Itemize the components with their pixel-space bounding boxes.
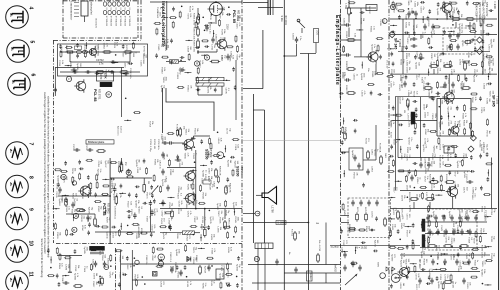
svg-text:30n: 30n [367,68,369,72]
capacitor T2848 [429,215,431,218]
svg-text:R3805 100k: R3805 100k [193,40,195,53]
resistor Sp1737 [227,233,229,238]
svg-text:2,2n: 2,2n [61,263,63,268]
junction [415,18,417,20]
resistor L2192 [168,133,173,135]
resistor C1786 [54,224,56,229]
capacitor C3728 [64,162,67,164]
svg-text:Bv: Bv [288,252,290,255]
svg-text:C2726: C2726 [405,155,407,162]
resistor Sp2152 [160,187,162,192]
wire segment [449,186,451,193]
resistor R3848 [90,265,92,270]
svg-text:R1080: R1080 [161,67,163,74]
resistor Sp1336 [66,230,68,235]
svg-text:C2822: C2822 [192,153,194,160]
wires join bottom right [452,197,454,209]
svg-text:C2455: C2455 [341,247,343,254]
junction [397,40,399,42]
faint fold line [243,140,340,142]
resistor R2408 [348,68,354,71]
svg-text:R1909: R1909 [169,169,171,176]
junction [430,255,432,257]
svg-text:Sp3420: Sp3420 [399,260,401,268]
wire segment [341,251,348,253]
svg-text:C2695: C2695 [157,44,159,51]
svg-text:Sp3953: Sp3953 [456,161,458,169]
svg-text:C1981: C1981 [86,216,88,223]
svg-text:R3014: R3014 [70,209,72,216]
svg-text:C2295: C2295 [55,191,57,198]
horizontal rail y120 right [392,120,437,122]
transistor T3502 [186,171,196,181]
svg-text:R3044: R3044 [370,26,372,33]
resistor T2213 [227,264,229,269]
capacitor T3384 [480,23,483,25]
caps lower left col [343,253,346,255]
testpoint 5 [126,170,131,175]
transformer Tr3801 hatched bars [196,77,224,80]
diode row lower [103,10,106,14]
svg-text:C1245: C1245 [440,225,442,232]
svg-text:T2634: T2634 [101,255,103,262]
svg-text:1: 1 [67,78,71,80]
svg-text:L3577: L3577 [415,74,417,81]
svg-text:2: 2 [104,266,108,268]
resistor T2300 [396,3,401,5]
wire segment [390,24,397,26]
svg-text:Sp2882: Sp2882 [202,170,204,178]
capacitor T2206 [135,194,138,196]
dark coil bottom right [411,112,415,124]
capacitor L3822 [95,72,97,75]
svg-text:T2955: T2955 [58,60,60,67]
resistor C1408 [377,72,382,74]
capacitor T2221 [340,229,343,231]
capacitor C3722 [149,202,152,204]
svg-text:1M: 1M [113,183,115,186]
svg-text:Sp1204: Sp1204 [373,240,375,248]
svg-text:1M: 1M [488,131,490,134]
svg-text:R2999: R2999 [341,72,343,79]
svg-text:L1160: L1160 [124,62,126,68]
svg-text:L2905: L2905 [439,131,441,138]
svg-text:R1112: R1112 [404,14,406,21]
capacitor C1219 [430,96,432,99]
svg-text:L1878: L1878 [400,195,402,202]
wire segment [213,30,215,37]
resistor Sp3159 [103,193,108,195]
resistor R1087 [156,29,158,34]
capacitor T2054 [456,106,459,108]
svg-text:nischen Fortschritt der Schalt: nischen Fortschritt der Schaltung [40,238,44,278]
svg-text:L3302: L3302 [391,224,393,231]
svg-text:Sp2248: Sp2248 [161,179,163,187]
resistor R2175 [225,201,227,206]
svg-text:sämtliche Werte die dem techni: sämtliche Werte die dem technischen Fort… [47,96,51,258]
resistor Sp3041 [203,40,208,42]
svg-text:1M: 1M [454,221,456,224]
capacitor T2824 [390,155,392,158]
svg-text:Sp1352: Sp1352 [443,230,445,238]
svg-text:R2096: R2096 [399,75,401,82]
svg-text:L3645: L3645 [400,223,402,230]
svg-text:C2948: C2948 [398,216,400,223]
junction [193,234,195,236]
svg-text:C1119: C1119 [111,183,113,190]
transistor T1201 [442,3,452,13]
svg-text:L3104: L3104 [360,91,362,98]
bottom row in subbox [350,229,355,231]
capacitor C3373 [88,223,91,225]
capacitor T1609 [486,33,488,36]
svg-text:5M: 5M [298,231,300,234]
wire segment [387,48,394,50]
wire segment [111,62,118,64]
wire segment [50,256,52,263]
wire right drop [120,68,122,118]
svg-text:Sp3131: Sp3131 [106,231,108,239]
svg-text:C3334: C3334 [471,193,473,200]
capacitor Sp3291 [205,24,207,27]
svg-text:Sp3324: Sp3324 [137,206,139,214]
resistor L2976 [473,248,478,250]
svg-text:L2816: L2816 [159,281,161,288]
svg-text:C3721: C3721 [56,183,58,190]
wire segment [201,54,208,56]
capacitor T1993 [354,129,357,131]
resistor T3600 [217,177,219,182]
resistor R3704 [104,51,110,53]
svg-text:Sp3052: Sp3052 [74,273,76,281]
resistors right r1 [453,18,459,21]
svg-text:C2051: C2051 [97,161,99,168]
resistor R1494 [415,171,417,176]
dashed subbox empfangs lower [348,198,391,238]
capacitor Sp1361 [143,202,145,205]
resistor Sp2029 [55,169,60,171]
resistor R1383 [471,108,476,110]
cap col3 [346,78,348,81]
svg-text:R3499: R3499 [218,12,220,19]
resistor L1263 [451,2,456,4]
capacitor T2269 [408,170,411,172]
capacitor Sp2021 [391,52,394,54]
svg-text:G: G [394,277,398,280]
svg-text:T1594: T1594 [471,97,473,104]
resistor R2176 [185,246,187,251]
wire main rail y67.5 [55,67,124,69]
svg-text:C2977: C2977 [458,14,460,21]
resistor C1289 [434,26,439,28]
main vertical wire x284 [283,0,285,290]
svg-text:T2541: T2541 [225,185,227,192]
resistor R2260 [473,24,475,29]
svg-text:R3252: R3252 [406,147,408,154]
junction [351,12,353,14]
svg-text:C1574: C1574 [98,249,100,256]
svg-text:L3659: L3659 [186,46,188,53]
junction [134,257,136,259]
resistor Sp1133 [60,51,62,56]
cap col1 [346,23,348,26]
svg-text:1M: 1M [435,145,437,148]
svg-text:R1838: R1838 [202,193,204,200]
capacitor L1972 [196,46,198,49]
capacitor L1580 [172,7,175,9]
Empfangs board inner dashed edge [388,0,390,290]
tube socket 8 [6,175,29,198]
junction [452,24,454,26]
svg-text:L3337: L3337 [466,209,468,216]
wire segment [65,65,72,67]
wire segment [200,164,207,166]
circle small bottom [380,273,386,279]
caps bottom right y258-270 [431,260,434,262]
svg-text:Ausführungen vergleichen Sie m: Ausführungen vergleichen Sie mit dem jew… [43,92,47,254]
svg-text:C3066: C3066 [185,202,187,209]
resistor R2427 [188,55,190,60]
box Sp2402 [366,5,377,11]
svg-text:Sp1235: Sp1235 [160,85,162,93]
svg-text:L3301: L3301 [406,67,408,74]
svg-text:T1427: T1427 [87,190,89,197]
resistor Sp3099 [59,254,61,259]
svg-text:4: 4 [28,7,34,10]
svg-text:C3332: C3332 [151,224,153,231]
svg-text:Sp2405: Sp2405 [96,169,98,177]
svg-text:Sp3854: Sp3854 [480,269,482,277]
svg-text:C3802 1,5n: C3802 1,5n [209,22,211,34]
resistor R2406 [348,39,354,42]
resistor T3361 [473,211,478,213]
capacitor L3599 [448,147,451,149]
long wire x253 [252,94,254,243]
capacitor C3721 [58,188,61,190]
resistor T3595 [111,162,116,164]
resistor C2524 [208,257,213,259]
svg-text:R3801 170k: R3801 170k [193,13,195,26]
svg-text:L2272: L2272 [443,274,445,281]
resistor L1957 [431,130,436,132]
svg-text:Sp2145: Sp2145 [162,232,164,240]
svg-text:Sp2412: Sp2412 [374,149,376,157]
caps row y160-175 right [419,163,422,165]
resistor L1128 [472,93,477,95]
resistor grid y60-74 [431,65,437,68]
wire segment [62,275,69,277]
wire segment [161,17,168,19]
svg-text:C1094: C1094 [135,233,137,240]
capacitor Sp3461 [488,83,490,86]
resistor R3546 [225,187,228,193]
resistor L3061 [440,176,442,181]
svg-text:1M: 1M [448,45,450,48]
trimmer arrow [151,186,158,194]
wire empf col h [345,7,376,9]
svg-text:Sp1962: Sp1962 [179,67,181,75]
capacitor R3896 [370,55,373,57]
svg-text:b224: b224 [124,22,126,27]
capacitor Sp3609 [445,76,448,78]
svg-text:Sp2392: Sp2392 [226,160,228,168]
hwire r3 [398,51,490,53]
wire bottom connects [284,272,340,274]
resistor R2039 [441,268,446,270]
wire segment [224,145,226,152]
resistor R3319 [170,17,175,19]
svg-text:R3703: R3703 [83,45,85,52]
svg-text:L2994: L2994 [216,227,218,234]
resistor R3725 [94,219,97,225]
svg-text:Sp1032: Sp1032 [235,264,237,272]
wire hr bottom1 [390,208,497,210]
svg-text:T3963: T3963 [221,55,223,62]
wire segment [400,146,402,153]
capacitor Sp2708 [436,231,438,234]
resistor R3542 [179,129,182,135]
capacitor Sp1384 [234,86,237,88]
svg-text:11: 11 [28,272,34,278]
svg-text:C317: C317 [70,15,72,21]
junction [127,225,129,227]
svg-text:Empfangs-Leiterplatte: Empfangs-Leiterplatte [334,15,340,86]
wire segment [355,247,357,254]
svg-text:T1158: T1158 [71,168,73,175]
capacitor Sp3452 [360,11,362,14]
wire segment [53,208,60,210]
resistor T2249 [135,280,137,285]
svg-text:R1422: R1422 [127,201,129,208]
svg-text:Sp1228: Sp1228 [219,273,221,281]
wire row2 [70,61,130,63]
horizontal rail y283 mid-bottom [252,282,340,284]
svg-text:R1333: R1333 [201,217,203,224]
junction [414,187,416,189]
svg-text:R1205: R1205 [219,217,221,224]
resistor Sp1402 [432,194,434,199]
svg-text:L3394: L3394 [424,129,426,136]
svg-text:C2452: C2452 [371,166,373,173]
svg-text:C1758: C1758 [445,237,447,244]
Impuls board dashed outline top box [63,0,138,2]
resistor L2584 [158,248,163,250]
Impuls board dashed outline main [53,40,55,243]
svg-text:R1779: R1779 [405,230,407,237]
capacitor C3527 [169,226,172,228]
svg-text:T3695: T3695 [207,77,209,84]
svg-text:R2047: R2047 [398,85,400,92]
svg-text:ABL: ABL [9,215,12,220]
capacitor C3718 [122,45,125,47]
svg-text:1M: 1M [402,283,404,286]
resistor T2507 [233,139,238,141]
testpoint b [194,61,199,66]
transistor bottom empfangs [400,268,409,277]
capacitor C3802 [205,26,208,28]
capacitor T3135 [429,46,431,49]
resistor R1572 [352,262,357,264]
testpoint 3 [158,254,164,260]
mid vertical bus [195,150,197,209]
svg-text:R3533: R3533 [56,232,58,239]
svg-text:C1877: C1877 [219,37,221,44]
svg-text:Sp3522: Sp3522 [199,60,201,68]
svg-text:C2467: C2467 [445,45,447,52]
svg-text:R3565: R3565 [445,14,447,21]
junction [144,283,146,285]
svg-text:Sp2451: Sp2451 [351,150,353,158]
svg-text:Sp2042: Sp2042 [432,211,434,219]
svg-text:3: 3 [159,256,163,258]
resistor R3708 [66,46,71,48]
svg-text:C1214: C1214 [459,83,461,90]
capacitor T2693 [426,83,428,86]
wire net right of tube [110,177,152,179]
svg-text:L2308: L2308 [467,52,469,59]
svg-text:Sp2519: Sp2519 [204,266,206,274]
caps C4173 [351,262,354,264]
capacitor R3902 [118,283,121,285]
resistor Sp1477 [198,15,200,20]
diamond right1 [477,37,483,43]
testpoint 1 mid [217,152,224,159]
capacitor Sp2459 [94,193,97,195]
testpoint 6 [61,174,66,179]
resistor Sp2321 [214,155,219,157]
svg-text:L1587: L1587 [423,104,425,111]
resistor Sp1284 [178,86,183,88]
svg-text:L2649: L2649 [207,176,209,183]
resistor R2185 [72,177,74,182]
svg-text:L3211: L3211 [414,2,416,8]
capacitor C3370 [126,257,129,259]
svg-text:C1248: C1248 [210,280,212,287]
circle GMS [391,274,400,283]
svg-text:C1126: C1126 [140,60,142,67]
svg-text:L2056: L2056 [458,59,460,66]
svg-text:L2397: L2397 [406,185,408,192]
capacitor Sp1538 [479,97,482,99]
svg-text:C3803: C3803 [439,161,441,168]
resistors below y198-206 [411,198,417,201]
resistor T3709 [392,2,394,7]
resistor R3719 [143,185,146,192]
caps in subbox [448,34,451,36]
coil L3502 [182,231,194,235]
wire empf col h2 [341,39,361,41]
svg-text:R3870: R3870 [365,226,367,233]
box label T3504 [203,180,211,184]
wire segment [233,208,235,215]
capacitor Sp1993 [427,282,429,285]
junction [216,187,218,189]
wire segment [396,139,403,141]
resistor L3667 [163,56,168,58]
capacitor C3204 [295,38,298,40]
resistors R2216 R1226 [431,181,438,184]
resistor R1708 [446,164,451,166]
resistor R3751 [48,275,53,277]
resistor R2109 [461,160,463,165]
svg-text:C3720: C3720 [130,209,132,216]
long wire x263 [262,30,264,89]
capacitor R3489 [236,284,239,286]
resistor Sp1542 [398,247,403,249]
svg-text:R2957: R2957 [192,200,194,207]
svg-text:R2406: R2406 [345,32,347,39]
wire top rail [150,1,242,3]
